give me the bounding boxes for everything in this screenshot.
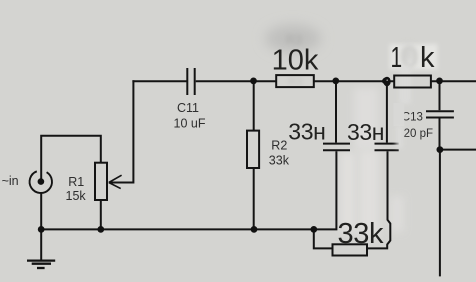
svg-text:33k: 33k [338, 218, 384, 250]
svg-text:k: k [420, 42, 435, 74]
capacitor C11 plates [186, 68, 188, 95]
svg-text:R1: R1 [68, 175, 84, 189]
svg-text:~in: ~in [2, 174, 19, 188]
wire: R1 bottom stub [100, 200, 102, 229]
node junction dot (ground rail / 33k drop) [310, 226, 317, 233]
svg-text:1: 1 [391, 42, 403, 74]
svg-text:C13: C13 [402, 111, 423, 123]
capacitor 33n #1 plates [323, 143, 350, 145]
smudge over ghost 0 [402, 45, 414, 63]
wire: C13 bottom stub [439, 119, 441, 150]
svg-text:20 pF: 20 pF [404, 128, 433, 140]
resistor 10k body [276, 75, 314, 87]
svg-text:10k: 10k [272, 45, 319, 77]
node junction dot (1k right/C13) [436, 78, 443, 85]
wire: ground symbol drop [40, 229, 42, 260]
node junction dot (ground rail / input drop) [38, 226, 45, 233]
wire: right rail vertical [439, 150, 441, 277]
wire: cap C?2 top stub [386, 81, 388, 142]
light trail below cap C?1 [340, 152, 356, 232]
capacitor 33n #2 plates [375, 143, 399, 145]
wire: top rail C11 to 10k [196, 80, 277, 82]
svg-text:R2: R2 [271, 138, 287, 152]
wash hiding left of C13 [394, 103, 405, 126]
wire: C13 top stub [439, 81, 441, 110]
node junction dot (10k/cap1) [332, 78, 339, 85]
capacitor C13 plates [426, 110, 454, 112]
svg-text:15k: 15k [66, 189, 87, 203]
light streak right of 33k bottom label [390, 196, 404, 232]
svg-text:33н: 33н [347, 119, 384, 145]
svg-text:33k: 33k [269, 153, 290, 167]
node junction dot (ground rail / R2) [251, 226, 258, 233]
wire: R2 top stub [253, 81, 255, 130]
node junction dot (ground rail / R1) [97, 226, 104, 233]
wire: drop from bottom rail to 33k resistor [314, 229, 333, 248]
wire: cap C?1 top stub [335, 81, 337, 142]
wire: top rail left segment from C11 corner [132, 80, 186, 82]
resistor 33k bottom body [333, 244, 368, 255]
resistor R2 body [247, 131, 259, 168]
wire: right rail horizontal to edge [440, 149, 476, 151]
wire: cap C?2 bottom with jog to 33k resistor [367, 151, 390, 248]
resistor 1k body [394, 76, 431, 88]
svg-text:C11: C11 [177, 101, 199, 115]
wiper arrowhead of R1 [109, 175, 122, 182]
wire: bottom ground rail [41, 151, 336, 229]
svg-text:10 uF: 10 uF [174, 117, 206, 131]
light streak between 33n caps [354, 88, 378, 150]
connector ~in circle [30, 171, 52, 193]
wire: top rail 10k to 1k [314, 80, 394, 82]
wire: top rail 1k to right edge [431, 80, 476, 82]
wire: input connector to R1 top [41, 136, 101, 180]
node junction dot scribble (1k left/cap2) [383, 77, 390, 87]
node junction dot (C11/10k/R2) [250, 78, 257, 85]
light streak below 1 k patch [399, 66, 411, 104]
smudge blob above 10k resistor [265, 25, 321, 53]
light patch behind 1 k label [390, 44, 438, 70]
wire: C11 down to wiper [109, 80, 133, 182]
wire: R2 bottom stub [253, 168, 255, 229]
svg-text:33н: 33н [288, 118, 325, 144]
ground symbol [27, 259, 55, 261]
connector center dot [38, 178, 45, 185]
wire: connector bottom down to ground rail [40, 193, 42, 229]
light trail below cap C?2 [359, 150, 379, 238]
potentiometer R1 body [95, 163, 107, 200]
node junction dot (C13 bottom) [437, 146, 444, 153]
